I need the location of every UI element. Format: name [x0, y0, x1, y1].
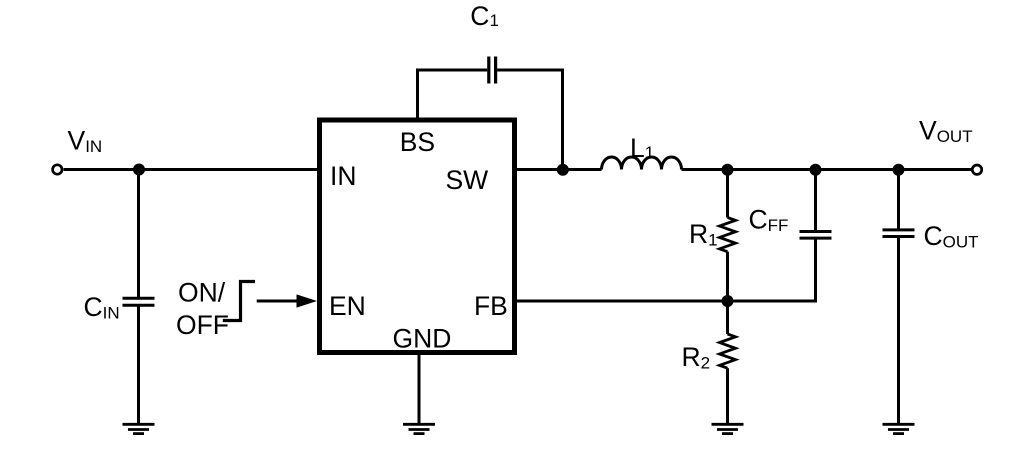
svg-text:IN: IN	[330, 161, 357, 191]
wire C1 left segment	[416, 69, 487, 72]
wire CFF lower lead down and left to FB node	[728, 238, 816, 301]
wire CIN lower lead	[137, 305, 140, 424]
inductor L1	[602, 157, 682, 170]
svg-text:EN: EN	[329, 291, 366, 321]
wire EN arrow shaft	[257, 300, 299, 303]
resistor R2	[720, 334, 736, 368]
junction dot CFF tap	[810, 164, 822, 176]
capacitor CFF	[800, 232, 832, 239]
capacitor C1 (bootstrap)	[489, 57, 496, 84]
wire BS pin to C1	[416, 69, 419, 121]
op IC U1 box	[320, 120, 515, 353]
wire R1 upper lead	[726, 170, 729, 218]
terminal VIN (open circle)	[53, 165, 62, 174]
junction dot R1 tap	[722, 164, 734, 176]
svg-text:FB: FB	[474, 291, 508, 321]
resistor R1	[720, 218, 736, 252]
ground under CIN	[123, 424, 155, 433]
wire CIN upper lead	[137, 170, 140, 299]
ground under R2	[712, 424, 744, 433]
svg-text:GND: GND	[393, 324, 452, 354]
wire FB pin to node	[515, 300, 728, 303]
svg-text:BS: BS	[400, 127, 435, 157]
junction dot at CIN tap	[133, 164, 145, 176]
wire R2 upper lead	[726, 301, 729, 334]
wire L1 to VOUT terminal	[682, 168, 972, 171]
wire VIN to IN pin	[64, 168, 317, 171]
node SW junction dot	[557, 164, 569, 176]
capacitor CIN	[123, 298, 155, 305]
wire R1 lower lead to FB node	[726, 252, 729, 301]
arrowhead into EN pin	[297, 294, 318, 307]
terminal VOUT (open circle)	[972, 165, 981, 174]
svg-text:SW: SW	[446, 165, 489, 195]
wire R2 lower lead	[726, 368, 729, 424]
svg-text:OFF: OFF	[176, 310, 229, 340]
node FB junction dot	[722, 295, 734, 307]
capacitor COUT	[883, 230, 915, 237]
wire GND pin lead	[418, 353, 421, 425]
wire C1 right segment	[497, 69, 564, 72]
ground under GND pin	[403, 424, 435, 433]
wire COUT lower lead	[897, 237, 900, 425]
wire CFF upper lead	[814, 170, 817, 232]
wire C1 down to SW node	[561, 69, 564, 170]
ground under COUT	[883, 424, 915, 433]
svg-text:ON/: ON/	[178, 278, 226, 308]
step waveform symbol at EN input	[223, 282, 255, 321]
junction dot COUT tap	[893, 164, 905, 176]
wire COUT upper lead	[897, 170, 900, 230]
wire SW pin to node	[515, 168, 602, 171]
